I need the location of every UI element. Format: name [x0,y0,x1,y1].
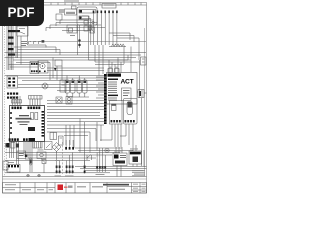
ground drops [10,152,85,173]
label text L1 [21,41,27,46]
ground bus line [5,172,110,174]
ECU A1 inner relays [31,113,38,120]
terminal strip X7 [7,165,20,173]
motor M1 [38,61,48,73]
relay K4 [17,151,26,159]
manufacturer logo red [58,185,68,191]
SECTION:MID [5,44,126,122]
capsule pins group2 [66,165,74,174]
left edge box [3,161,8,170]
connector X12 [50,133,57,140]
bus label box [102,4,116,9]
right bus wires [140,60,142,166]
fuse-relay box FB3 [7,76,18,88]
wires into ECU top [13,96,41,106]
wires module to X5 [137,92,147,93]
junction dots [78,39,80,46]
harness dash line left [5,143,7,172]
wire corner HL1 [28,26,47,48]
valve box [42,160,46,164]
sensor B4 [59,136,64,145]
ECU A1 left pin marks [10,112,12,134]
connector X10 [56,14,62,20]
connector X4 above ECU [12,100,22,103]
module U1 ACT logo [121,79,134,86]
capsule pins group1 [56,165,61,174]
ground symbols [27,174,41,176]
module top edge connectors [108,67,119,73]
pin stub wires into strip [96,77,104,98]
gauge module U3 [124,99,138,125]
capsule pins group3 [96,148,106,172]
wire drops into module top [109,47,131,73]
stubs below U4 U5 [117,150,144,177]
connector stubs under JB1 [78,25,93,55]
module U5 [129,151,142,164]
long wire node 30 [30,41,146,43]
right edge connector [141,57,147,65]
top ruler line with zone ticks [3,3,147,6]
resistor box R1 [60,80,66,92]
lamp symbols HL1 [29,40,45,44]
sensor box B1 [55,60,62,66]
connector X2 pins [7,93,18,99]
wire bundle mid band [5,65,104,81]
wire staircase from comb to left [46,20,105,31]
connector cluster bottom-left [6,143,20,149]
ECU A1 body [10,106,45,142]
mid-right horizontals [47,125,133,153]
SECTION:LEFT [5,26,146,70]
title text smudges [5,184,146,192]
relay K1 [65,6,77,15]
drawing frame border [3,3,147,194]
ECU A1 top pin row group1 [12,107,22,110]
SECTION:TOP [46,0,146,75]
lamp HL2 [42,83,48,89]
sheet header text [64,0,79,1]
switch S4 [67,25,77,33]
mid vertical feeders [50,58,62,81]
connector box X13 [30,62,39,74]
injector feed wires [67,76,85,81]
module U4 [113,153,127,166]
gauge module U2 [110,101,123,125]
switches S2 S3 [87,155,92,161]
breaker CB1 [90,27,95,33]
wire bundle to ACT [47,101,104,122]
PDF badge overlay [0,0,44,26]
SECTION:ECU [9,96,45,142]
SECTION:TITLE [3,183,147,194]
right frame inner line [144,28,146,176]
relay K3 [17,26,28,36]
wire corner bundle left of comb [62,16,91,45]
bottom-right wire bundle [75,167,147,171]
diode box V1 [56,97,62,103]
mid long horizontals [18,85,104,91]
mid caps row [65,140,74,150]
fuse F5 [8,48,14,50]
module U1 part-number bar [108,74,122,77]
SECTION:FRAME [3,3,147,194]
wire pair to K3 [16,26,21,65]
arrow down [54,68,56,71]
switch S1 [45,142,53,150]
wire bundle top-right to right bus [109,33,139,60]
revision note text [132,170,145,176]
fuse F7 [8,54,15,56]
left ruler dotted border [4,26,6,176]
resistor R2 [33,142,42,149]
title block row line [3,187,147,191]
capsule pin single [84,165,86,174]
bottom wire bundle [5,153,120,161]
injector return wire [67,93,89,97]
pump relay box [37,152,46,159]
fuse F1 label text [59,10,64,13]
fuse holder F6 [30,158,33,165]
fuse F2 [8,30,20,32]
vertical drops from ECU bottom [10,142,33,173]
SECTION:ACT [47,60,147,166]
wire right band horizontals [47,60,140,71]
coil row L2 [109,44,126,47]
injector pair Y3 Y4 [77,80,87,93]
module U1 body [107,73,138,105]
module U1 sub-box [122,88,132,101]
ECU A1 bottom pin row [9,138,28,141]
junction blob [25,155,27,157]
title block column lines [20,183,140,194]
svg-text:ACT: ACT [121,79,134,86]
injector pair Y1 Y2 [65,80,75,93]
module U1 left pin strip [104,74,107,124]
fuse F4 [8,43,14,45]
connector X5 right of module [138,90,144,98]
title block outline [3,183,147,194]
wire verticals comb to module [89,45,104,76]
ECU A1 top pin row group2 [28,107,41,110]
wire verticals mid-bottom [64,122,101,151]
wires below gauges [100,124,133,147]
circle sensor B5 [105,148,109,152]
wire bundle staircase mid-left [5,47,146,63]
ECU A1 inner dark cell [28,127,35,131]
wire drop [79,34,81,48]
bottom inner frame line [3,177,147,180]
ECU A1 right pin column [42,111,45,137]
ECU A1 centre label [16,115,32,125]
solenoid V2 [66,97,72,105]
junction box JB1 [77,7,97,25]
diamond gauge [52,143,61,152]
drop wires right-mid [80,119,85,166]
module U1 pin list rows [108,79,118,101]
label under S4 [70,34,75,37]
wires to U4 U5 [116,145,136,153]
SECTION:BOTTOM [3,119,147,177]
connector comb J3 pins [93,11,118,46]
connector X3 above ECU [29,96,43,100]
battery feed wires [7,26,13,70]
dashed harness boundary [62,142,64,174]
ECU A1 corner connector block [29,138,36,141]
fuse F3 [8,37,14,39]
component labels bottom [8,149,138,177]
